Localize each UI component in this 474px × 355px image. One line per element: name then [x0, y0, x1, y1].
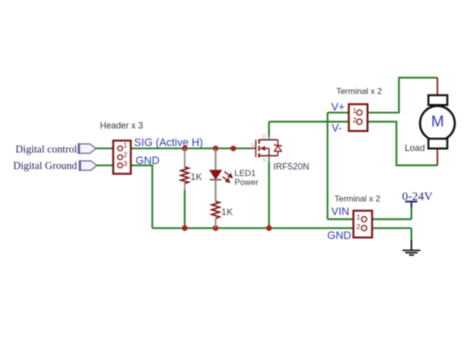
pin 1	[362, 217, 367, 222]
wire: drain to V- terminal pin 2	[269, 121, 357, 123]
svg-text:2: 2	[123, 152, 127, 159]
svg-text:Terminal x 2: Terminal x 2	[335, 193, 381, 203]
svg-text:Terminal x 2: Terminal x 2	[336, 86, 382, 96]
svg-text:IRF520N: IRF520N	[273, 161, 309, 171]
motor M1	[405, 78, 455, 166]
wire: GND bottom bus	[152, 227, 362, 229]
transistor Q1 IRF520N	[250, 134, 310, 171]
svg-text:V+: V+	[331, 102, 345, 114]
svg-text:Header x 3: Header x 3	[100, 121, 143, 131]
flag: Digital control net flag	[79, 143, 96, 154]
body diode (zener-style)	[277, 140, 279, 146]
svg-text:SIG (Active H): SIG (Active H)	[134, 137, 203, 149]
wire: V+ to VIN vertical	[327, 113, 329, 220]
pin 1	[118, 146, 123, 151]
svg-text:1K: 1K	[221, 207, 233, 218]
wire: Digital control flag to header pin 1	[96, 147, 119, 149]
wire: V+ terminal pin1 to VIN vertical link	[328, 112, 358, 114]
wire: V+ pin1 to motor (right then up)	[362, 78, 437, 113]
svg-text:V-: V-	[332, 123, 343, 135]
wire: SIG net (header pin 1 to MOSFET gate)	[122, 147, 250, 149]
svg-text:GND: GND	[136, 155, 160, 167]
channel bar segments	[258, 139, 260, 143]
svg-text:S: S	[263, 158, 267, 164]
svg-text:D: D	[262, 134, 266, 140]
wire: GND from header pin 3 to corner	[122, 164, 152, 166]
pin 2	[118, 155, 123, 160]
wire: link into VIN terminal pin 1	[328, 218, 362, 220]
source pin stub	[268, 156, 270, 163]
flag: Digital Ground net flag	[80, 160, 97, 171]
wire: V- pin2 to motor (right, down, right)	[362, 122, 437, 166]
motor top lead	[436, 78, 438, 96]
svg-text:Load: Load	[405, 143, 425, 153]
pin 1	[357, 110, 362, 115]
wire: drain riser	[268, 122, 270, 136]
node: SIG bendpoint near gate	[231, 146, 237, 152]
svg-text:1: 1	[353, 108, 357, 115]
svg-text:1K: 1K	[191, 172, 203, 183]
svg-text:M: M	[431, 114, 444, 131]
connector J3 terminal x 2 (VIN/GND)	[353, 211, 372, 238]
pin 3	[118, 163, 123, 168]
LED triangle	[210, 170, 221, 179]
gate lead	[250, 147, 256, 149]
svg-text:Digital Ground: Digital Ground	[13, 161, 78, 172]
wire: GND vertical drop	[151, 165, 153, 229]
LED emission arrow 2	[223, 177, 230, 183]
svg-text:Power: Power	[235, 177, 259, 187]
wire: supply riser	[410, 207, 412, 219]
svg-text:2: 2	[353, 117, 357, 124]
motor bottom brush block	[428, 139, 447, 149]
pin 2	[362, 226, 367, 231]
wire: ground drop to earth symbol	[410, 228, 412, 241]
connector J1 header x 3	[113, 141, 131, 174]
wire: GND bus out of VIN terminal pin 2 to ground corner	[367, 227, 412, 229]
LED cathode bar	[210, 179, 222, 181]
motor bottom lead	[436, 149, 438, 166]
pin 2	[357, 119, 362, 124]
node: SIG junction at R1 top	[182, 146, 188, 152]
body arrow (points into channel)	[261, 147, 269, 149]
wire: VIN pin1 to supply 0-24V	[367, 218, 412, 220]
LED emission arrow 1	[224, 172, 232, 178]
node: GND junction at MOSFET source	[266, 225, 272, 231]
gate bar	[255, 140, 257, 158]
svg-text:3: 3	[123, 161, 127, 168]
ground symbol	[403, 241, 421, 256]
drain pin stub	[268, 136, 270, 140]
svg-text:2: 2	[356, 224, 360, 231]
motor body circle	[420, 106, 455, 141]
motor top brush block	[428, 95, 447, 105]
power supply symbol 0-24V	[405, 202, 417, 208]
svg-text:1: 1	[123, 143, 127, 150]
svg-text:GND: GND	[327, 230, 351, 242]
connector J2 terminal x 2 (V+/V-)	[349, 104, 368, 131]
LED1	[210, 148, 259, 201]
svg-text:Digital control: Digital control	[15, 144, 77, 155]
resistor R2 1K	[212, 201, 234, 228]
svg-text:1: 1	[356, 215, 360, 222]
node: SIG junction at LED top	[213, 146, 219, 152]
wire: Digital Ground flag to header pin 3	[97, 164, 119, 166]
svg-text:VIN: VIN	[331, 206, 349, 218]
svg-text:G: G	[251, 143, 255, 149]
drain horizontal	[259, 139, 278, 141]
resistor R1 1K	[181, 148, 203, 190]
svg-text:0-24V: 0-24V	[402, 189, 433, 203]
wire: source down to GND bus	[268, 162, 270, 228]
source horizontal	[259, 155, 278, 157]
node: GND junction at R1 bottom	[182, 225, 188, 231]
node: GND junction at R2 bottom	[213, 225, 219, 231]
wire: R1 lower lead to GND bus	[184, 190, 186, 228]
